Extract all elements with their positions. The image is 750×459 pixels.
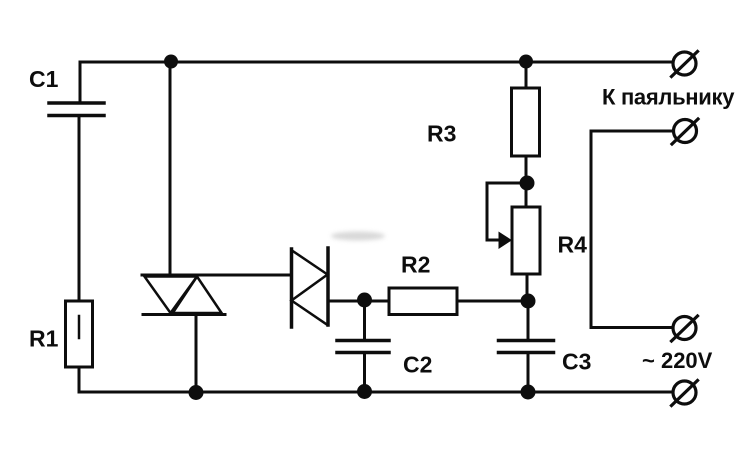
svg-text:C1: C1 [29,66,59,92]
svg-text:C2: C2 [403,352,432,378]
svg-text:R3: R3 [427,121,456,147]
svg-text:C3: C3 [562,349,591,375]
svg-text:~ 220V: ~ 220V [642,348,713,373]
svg-text:R1: R1 [29,326,59,352]
svg-text:К паяльнику: К паяльнику [602,85,735,110]
svg-text:R4: R4 [558,232,588,258]
svg-text:R2: R2 [401,252,430,278]
